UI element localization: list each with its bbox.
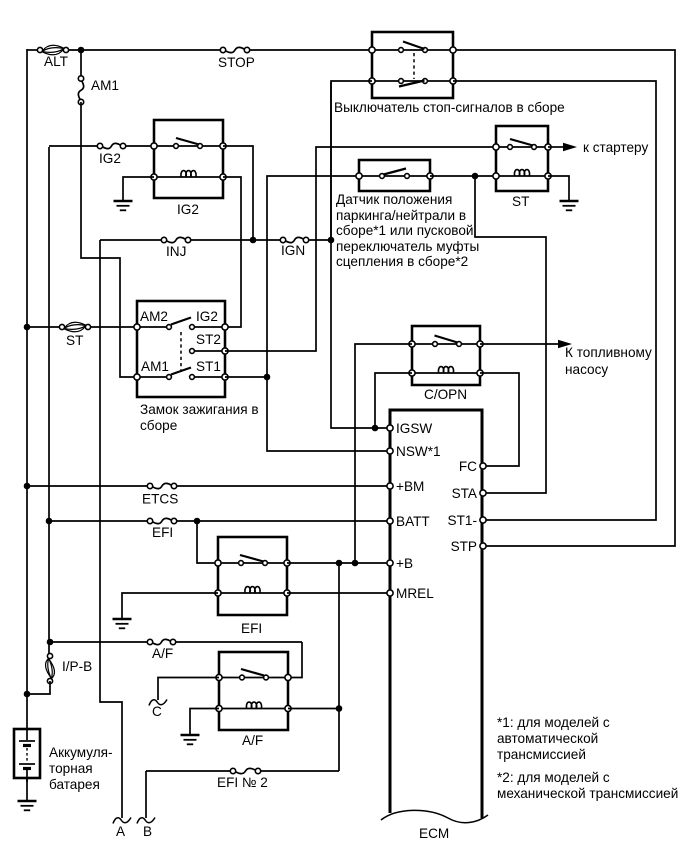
relay ST box (496, 126, 548, 191)
ECM pin NSW*1 (387, 448, 393, 454)
relay EFI coil row (218, 592, 287, 594)
svg-text:ALT: ALT (44, 54, 68, 69)
svg-text:паркинга/нейтрали в: паркинга/нейтрали в (336, 208, 466, 223)
svg-text:+B: +B (396, 556, 413, 571)
relay EFI switch blade (240, 555, 264, 562)
wire battery positive rail (left vertical) (26, 49, 28, 730)
wire stop switch lower-right to ST1- pin (453, 81, 656, 520)
relay A/F terminals (216, 674, 222, 680)
stop light switch upper blade (403, 42, 425, 50)
svg-text:к стартеру: к стартеру (583, 140, 648, 155)
svg-text:IG2: IG2 (177, 202, 199, 217)
relay C/OPN coil (438, 367, 453, 373)
wire IGN output riser to IGSW (331, 82, 388, 428)
fuse AM1 (vertical) (80, 50, 82, 78)
node junction EFI No.2 riser / A-F coil (336, 705, 343, 712)
svg-text:STP: STP (451, 539, 477, 554)
relay EFI coil (245, 587, 260, 593)
relay A/F box (219, 652, 288, 730)
svg-text:EFI: EFI (241, 621, 262, 636)
fuse A/F (152, 639, 171, 644)
svg-text:STA: STA (452, 486, 478, 501)
stop light switch mechanical link (dashed) (413, 53, 415, 79)
ignition switch AM2 blade (171, 318, 191, 325)
park/neutral position switch box (359, 160, 430, 191)
svg-text:EFI № 2: EFI № 2 (217, 775, 268, 790)
fusible link I/P-B (vertical) (46, 658, 52, 679)
stop light switch terminals (369, 47, 375, 53)
svg-text:NSW*1: NSW*1 (396, 444, 441, 459)
ECM torn bottom edge (381, 810, 488, 822)
ground IG2 relay (114, 200, 133, 203)
ECM pin IGSW (387, 425, 393, 431)
ECM pin STP (480, 543, 486, 549)
svg-text:сборе*1 или пусковой: сборе*1 или пусковой (336, 223, 473, 238)
relay ST coil row (496, 175, 548, 177)
ECM box (390, 410, 482, 818)
stop light switch lower blade (399, 81, 425, 87)
node junction IGSW / C-OPN coil feed (372, 425, 379, 432)
connector A break symbol (113, 818, 131, 824)
ground ST relay (560, 200, 579, 203)
svg-text:+BM: +BM (396, 479, 424, 494)
svg-text:EFI: EFI (152, 525, 173, 540)
relay A/F switch contacts (219, 677, 288, 679)
connector C break symbol (149, 700, 167, 706)
svg-text:ST2: ST2 (196, 332, 221, 347)
wire ST1 output (225, 376, 267, 378)
ground A/F relay (181, 734, 200, 737)
ECM pin FC (480, 463, 486, 469)
ground EFI relay (113, 618, 132, 621)
svg-text:трансмиссией: трансмиссией (497, 747, 586, 762)
node junction ST1 / NSW riser (264, 374, 271, 381)
wire EFI No.2 riser (338, 563, 340, 771)
svg-text:Выключатель стоп-сигналов в сб: Выключатель стоп-сигналов в сборе (334, 100, 565, 115)
wire STA drop from park/neutral node (475, 176, 546, 493)
relay C/OPN coil row (412, 372, 480, 374)
relay C/OPN switch contacts (412, 343, 480, 345)
ECM pin STA (480, 490, 486, 496)
svg-text:автоматической: автоматической (497, 731, 598, 746)
wire ST relay coil to ground (548, 176, 569, 200)
node junction battery rail / ETCS (24, 483, 31, 490)
wire EFI relay switch feed (197, 521, 216, 563)
wire I/P-B link to battery rail (27, 681, 50, 694)
relay IG2 box (154, 120, 223, 198)
wire IG2 relay coil to ground (123, 177, 154, 200)
ECM pin +B (387, 560, 393, 566)
wire IG2 relay coil feed from ignition switch IG2 (223, 177, 241, 327)
wire INJ rail down to connector A (100, 240, 122, 818)
connector B break symbol (137, 818, 155, 824)
wire A/F relay coil right to EFI No.2 riser (288, 708, 339, 710)
svg-text:FC: FC (459, 459, 477, 474)
ECM pin MREL (387, 590, 393, 596)
svg-text:STOP: STOP (218, 55, 255, 70)
node junction park/neutral output / STA drop (472, 173, 479, 180)
wire C/OPN switch feed from +B rail (355, 344, 412, 563)
battery plates (19, 740, 35, 742)
relay A/F coil (246, 702, 261, 708)
node junction battery rail / I/P-B (24, 691, 31, 698)
fuse ETCS (152, 483, 172, 488)
ignition switch AM1 blade (171, 368, 191, 375)
wire ST2 output to ST relay switch (225, 147, 494, 351)
wire EFI relay coil to MREL pin (287, 592, 388, 594)
wire ST fusible link row (27, 326, 63, 328)
fuse IG2 (102, 143, 121, 148)
node junction +B wire / EFI No.2 riser (336, 560, 343, 567)
wire A/F relay switch to connector C (158, 678, 219, 701)
wire battery internal stems (26, 729, 28, 740)
svg-text:С: С (152, 704, 162, 719)
ECM pin ST1- (480, 517, 486, 523)
svg-text:*2: для моделей с: *2: для моделей с (497, 770, 610, 785)
relay EFI switch contacts (218, 562, 287, 564)
svg-text:насосу: насосу (565, 362, 608, 377)
relay A/F switch blade (241, 669, 264, 676)
relay IG2 terminals (151, 143, 157, 149)
wire ST1 riser to park/neutral switch (267, 176, 357, 377)
wire ETCS fuse row to +BM pin (27, 485, 151, 487)
svg-text:IG2: IG2 (196, 309, 218, 324)
fuse STOP (225, 47, 245, 52)
relay IG2 switch contacts (154, 145, 223, 147)
park/neutral switch terminals (356, 173, 362, 179)
wire A/F fuse output to relay switch right terminal (290, 642, 302, 678)
ignition switch AM1-ST1 row (137, 376, 169, 378)
relay ST switch blade (510, 139, 533, 146)
wire top rail between STOP fuse and stop light switch (245, 49, 374, 51)
relay C/OPN terminals (409, 341, 415, 347)
wire EFI relay output to +B pin (287, 562, 388, 564)
node junction at ALT output / AM1 tap (78, 47, 85, 54)
svg-text:батарея: батарея (49, 777, 100, 792)
ignition switch mechanical link (dashed) (180, 332, 182, 372)
svg-text:IGSW: IGSW (396, 421, 432, 436)
svg-text:INJ: INJ (166, 244, 186, 259)
ignition switch box (Замок зажигания) (137, 301, 225, 397)
node junction battery rail / ST link (24, 324, 31, 331)
wire main B+ top rail left segment (27, 49, 42, 51)
wire ST relay output to starter arrow (548, 146, 564, 148)
fuse IGN (285, 237, 304, 242)
wire INJ-IGN fuse rail (100, 239, 165, 241)
stop light switch lower contacts (372, 80, 453, 82)
wire C/OPN coil feed from IGSW node (375, 373, 412, 428)
wire IG2 fuse feed from battery rail (48, 147, 50, 655)
ground battery (18, 800, 37, 803)
wire EFI relay coil to ground (122, 593, 218, 618)
fuse EFI (152, 518, 172, 523)
relay ST switch contacts (496, 146, 548, 148)
svg-text:К топливному: К топливному (565, 345, 652, 360)
relay ST coil (514, 170, 529, 176)
park/neutral switch blade (384, 169, 407, 175)
relay IG2 coil row wire (154, 176, 223, 178)
svg-text:сцепления в сборе*2: сцепления в сборе*2 (336, 254, 468, 269)
wire EFI No.2 fuse row (261, 770, 339, 772)
node junction IGN fuse output / stop feed (328, 237, 335, 244)
svg-text:MREL: MREL (396, 586, 434, 601)
svg-text:ST: ST (66, 333, 83, 348)
wire IG2 fuse row (49, 145, 99, 147)
svg-text:C/OPN: C/OPN (424, 387, 467, 402)
svg-text:ECM: ECM (419, 826, 449, 841)
stop light switch box (Выключатель стоп-сигналов) (372, 32, 453, 98)
wire battery negative to ground (26, 778, 28, 800)
wire park/neutral output to ST relay coil (430, 175, 494, 177)
svg-text:AM2: AM2 (140, 309, 168, 324)
wire top rail from stop light switch to right edge down to STP (451, 50, 675, 546)
node junction +B wire / C-OPN feed riser (352, 560, 359, 567)
ignition switch AM2-IG2 row (137, 326, 169, 328)
wire stop switch lower-left to IGN node riser (331, 81, 372, 240)
wire connector B drop (145, 771, 147, 818)
wire C/OPN output to fuel pump arrow (480, 343, 559, 345)
relay C/OPN box (412, 326, 480, 385)
node junction EFI fuse output / EFI relay feed (194, 518, 201, 525)
fusible link ST (64, 322, 86, 328)
relay EFI terminals (215, 560, 221, 566)
svg-text:BATT: BATT (396, 514, 430, 529)
wire ST1 drop to NSW*1 pin (267, 377, 388, 451)
svg-text:IG2: IG2 (99, 151, 121, 166)
relay EFI box (218, 537, 287, 615)
svg-text:Замок зажигания в: Замок зажигания в (140, 402, 259, 417)
fusible link ALT (42, 45, 64, 51)
wire EFI fuse row to BATT pin (49, 520, 151, 522)
wire A/F relay coil to ground (190, 709, 219, 735)
svg-text:Датчик положения: Датчик положения (336, 192, 452, 207)
svg-text:ST1: ST1 (196, 359, 221, 374)
svg-text:Аккумуля-: Аккумуля- (49, 745, 113, 760)
svg-text:AM1: AM1 (91, 78, 119, 93)
battery (Аккумуляторная батарея) box (14, 729, 40, 778)
svg-text:I/P-B: I/P-B (62, 659, 92, 674)
node junction IG2-feed rail / EFI fuse (46, 518, 53, 525)
relay C/OPN switch blade (435, 336, 458, 343)
node junction feed rail / A-F fuse (47, 639, 54, 646)
node junction INJ/IGN rail at IG2 relay output (250, 237, 257, 244)
svg-text:AM1: AM1 (141, 359, 169, 374)
svg-text:A: A (116, 824, 126, 839)
svg-text:A/F: A/F (242, 733, 263, 748)
svg-text:ETCS: ETCS (142, 492, 178, 507)
wire IG2 relay switch output down to INJ/IGN rail (223, 146, 253, 240)
ignition switch ST2 contact (192, 350, 225, 352)
park/neutral switch contacts (359, 175, 430, 177)
ECM pin +BM (387, 483, 393, 489)
wire AM1 fuse to ignition switch AM1 terminal (81, 102, 135, 377)
svg-text:торная: торная (49, 761, 93, 776)
wire A/F fuse row (50, 641, 151, 643)
svg-text:переключатель муфты: переключатель муфты (336, 239, 479, 254)
svg-text:ST1-: ST1- (448, 513, 477, 528)
svg-text:сборе: сборе (140, 418, 177, 433)
stop light switch upper contacts (372, 49, 453, 51)
relay ST terminals (493, 144, 499, 150)
svg-text:B: B (143, 824, 152, 839)
svg-text:механической трансмиссией: механической трансмиссией (497, 786, 678, 801)
fuse EFI No.2 (235, 768, 256, 773)
svg-text:ST: ST (512, 194, 529, 209)
fuse INJ (166, 237, 186, 242)
svg-text:A/F: A/F (152, 646, 173, 661)
relay IG2 switch blade (176, 138, 199, 145)
ignition switch terminals (134, 324, 140, 330)
svg-text:IGN: IGN (281, 243, 305, 258)
wire C/OPN coil to FC pin (480, 373, 519, 466)
relay IG2 coil (181, 171, 196, 177)
relay A/F coil row (219, 708, 288, 710)
ECM pin BATT (387, 518, 393, 524)
svg-text:*1: для моделей с: *1: для моделей с (497, 715, 610, 730)
